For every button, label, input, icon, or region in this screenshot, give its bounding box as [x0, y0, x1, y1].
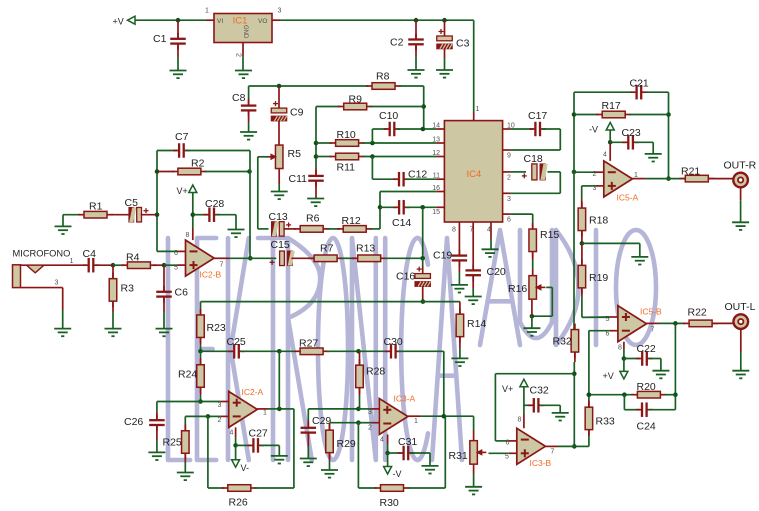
wire: [184, 462, 186, 473]
wire: [589, 330, 610, 332]
wire: [436, 142, 444, 144]
op-amp IC5-A: [593, 161, 639, 203]
resistor R25: [163, 425, 190, 460]
wire: [308, 408, 358, 410]
svg-text:IC1: IC1: [233, 16, 248, 27]
svg-text:R7: R7: [320, 243, 334, 255]
junction: [442, 414, 447, 419]
svg-text:6: 6: [507, 217, 511, 224]
wire: [95, 264, 113, 266]
power flag V- IC2-A: [232, 460, 249, 473]
svg-text:1: 1: [70, 258, 74, 265]
wire: [596, 185, 604, 187]
svg-text:2: 2: [218, 417, 222, 424]
junction: [421, 104, 426, 109]
wire: [503, 171, 511, 173]
capacitor C22: [636, 343, 656, 366]
svg-text:11: 11: [433, 173, 440, 180]
ground: [271, 192, 288, 200]
wire: [214, 257, 229, 259]
svg-text:R27: R27: [299, 338, 318, 350]
wire: [236, 444, 252, 446]
wire: [740, 352, 742, 371]
capacitor C4: [83, 248, 100, 272]
capacitor C24: [636, 402, 656, 432]
svg-text:IC3-A: IC3-A: [394, 394, 416, 404]
wire: [610, 330, 618, 332]
svg-text:C23: C23: [622, 127, 641, 139]
wire: [329, 423, 331, 431]
capacitor C27: [247, 428, 268, 453]
wire: [545, 445, 558, 447]
capacitor C14: [392, 200, 411, 229]
wire: [551, 287, 553, 316]
wire: [257, 157, 259, 229]
capacitor C1: [153, 33, 186, 50]
svg-text:4: 4: [230, 430, 234, 437]
wire: [668, 92, 670, 178]
wire: [647, 322, 660, 324]
wire: [406, 178, 437, 180]
resistor R30: [375, 485, 410, 509]
regulator IC1: [205, 8, 282, 58]
wire: [495, 373, 574, 375]
svg-text:IC5-B: IC5-B: [640, 307, 662, 317]
wire: [531, 316, 533, 328]
junction: [572, 112, 577, 117]
wire: [588, 429, 590, 434]
wire: [623, 349, 625, 359]
capacitor C12: [393, 169, 427, 187]
svg-text:GND: GND: [242, 25, 248, 39]
svg-text:C4: C4: [83, 248, 97, 260]
junction: [572, 371, 577, 376]
ground: [465, 297, 482, 305]
svg-text:C16: C16: [396, 271, 415, 283]
svg-text:R10: R10: [337, 129, 356, 141]
wire: [242, 43, 244, 57]
wire: [156, 151, 158, 252]
wire: [490, 222, 492, 239]
wire: [581, 186, 583, 200]
junction: [176, 18, 181, 23]
wire: [582, 185, 596, 187]
svg-text:8: 8: [452, 227, 456, 234]
junction: [162, 263, 167, 268]
wire: [201, 301, 423, 303]
wire: [406, 206, 437, 208]
wire: [329, 452, 331, 460]
resistor R23: [197, 309, 226, 344]
wire: [178, 264, 186, 266]
svg-text:C3: C3: [456, 38, 470, 50]
junction: [530, 314, 535, 319]
trimmer R16: [508, 276, 545, 300]
junction: [580, 241, 585, 246]
wire: [192, 228, 194, 240]
IC U IC4: [432, 121, 515, 234]
svg-text:C17: C17: [528, 110, 547, 122]
capacitor C10: [379, 110, 400, 136]
wire: [646, 91, 669, 93]
wire: [415, 44, 417, 56]
wire: [573, 92, 575, 329]
connector OUT-L: [725, 301, 756, 329]
svg-text:R20: R20: [637, 381, 656, 393]
wire: [258, 228, 269, 230]
wire: [659, 322, 685, 324]
junction: [587, 393, 592, 398]
wire: [330, 422, 359, 424]
capacitor C17: [528, 110, 547, 136]
svg-text:R8: R8: [376, 71, 390, 83]
svg-text:C10: C10: [379, 110, 398, 122]
wire: [546, 286, 552, 288]
junction: [247, 169, 252, 174]
wire: [582, 242, 640, 244]
wire: [157, 171, 174, 173]
wire: [156, 440, 158, 452]
junction: [622, 392, 627, 397]
wire: [423, 86, 425, 129]
ground: [156, 329, 173, 337]
power flag -V: [589, 123, 614, 135]
wire: [444, 20, 446, 36]
junction: [248, 256, 253, 261]
wire: [208, 487, 224, 489]
wire: [581, 231, 583, 243]
svg-text:R23: R23: [207, 322, 226, 334]
svg-text:C2: C2: [390, 37, 404, 49]
wire: [398, 350, 444, 352]
resistor R21: [679, 166, 714, 182]
wire: [329, 460, 331, 470]
wire: [399, 85, 424, 87]
svg-text:R31: R31: [449, 450, 468, 462]
svg-text:7: 7: [220, 262, 224, 269]
capacitor C15: [270, 239, 295, 266]
svg-text:C7: C7: [175, 131, 189, 143]
resistor R12: [337, 215, 372, 232]
wire: [156, 412, 158, 420]
svg-text:R29: R29: [337, 438, 356, 450]
wire: [63, 214, 80, 216]
resistor R19: [578, 259, 608, 294]
junction: [378, 205, 383, 210]
capacitor C20: [465, 264, 505, 281]
wire: [573, 362, 575, 446]
svg-text:1: 1: [263, 410, 267, 417]
junction: [572, 170, 577, 175]
junction: [198, 399, 203, 404]
wire: [473, 430, 475, 440]
junction: [673, 392, 678, 397]
resistor R7: [308, 243, 343, 262]
wire: [581, 289, 583, 297]
wire: [635, 141, 653, 143]
wire: [473, 465, 475, 474]
wire: [458, 222, 460, 255]
wire: [279, 350, 296, 352]
junction: [666, 176, 671, 181]
wire: [624, 358, 640, 360]
wire: [387, 435, 389, 445]
svg-text:V+: V+: [502, 384, 513, 394]
resistor R11: [330, 153, 365, 173]
svg-text:14: 14: [432, 123, 440, 130]
trimmer R31: [449, 441, 487, 465]
ground: [631, 257, 648, 265]
resistor R10: [330, 129, 365, 146]
wire: [574, 445, 589, 447]
svg-text:R24: R24: [178, 369, 197, 381]
wire: [532, 270, 534, 276]
svg-text:6: 6: [506, 440, 510, 447]
wire: [205, 171, 250, 173]
wire: [315, 181, 317, 199]
svg-text:R18: R18: [589, 215, 608, 227]
ground: [482, 249, 499, 257]
ground: [300, 459, 317, 467]
wire: [62, 310, 64, 329]
op-amp IC2-A: [218, 387, 268, 437]
power flag +V: [113, 16, 136, 26]
wire: [581, 200, 583, 208]
svg-text:C20: C20: [487, 266, 506, 278]
svg-text:OUT-L: OUT-L: [725, 301, 756, 313]
wire: [429, 453, 431, 466]
wire: [200, 345, 202, 351]
resistor R26: [222, 485, 257, 509]
wire: [632, 178, 645, 180]
wire: [136, 19, 207, 21]
wire: [307, 446, 309, 459]
capacitor C21: [630, 78, 649, 100]
wire: [235, 427, 237, 437]
wire: [163, 298, 165, 312]
wire: [156, 426, 158, 441]
wire: [674, 323, 676, 409]
wire: [66, 264, 87, 266]
ground: [148, 452, 165, 460]
wire: [649, 409, 676, 411]
svg-text:+V: +V: [113, 17, 124, 27]
svg-text:1: 1: [205, 8, 209, 15]
wire: [503, 213, 511, 215]
resistor R6: [294, 213, 329, 233]
junction: [111, 263, 116, 268]
svg-text:16: 16: [432, 185, 440, 192]
wire: [248, 86, 250, 98]
wire: [664, 394, 675, 396]
svg-text:C25: C25: [227, 336, 246, 348]
svg-text:R6: R6: [306, 213, 320, 225]
wire: [221, 415, 229, 417]
wire: [363, 142, 437, 144]
svg-text:C24: C24: [637, 421, 656, 433]
wire: [503, 128, 511, 130]
wire: [588, 434, 590, 446]
wire: [443, 351, 445, 416]
wire: [316, 142, 332, 144]
wire: [623, 342, 625, 349]
wire: [112, 265, 114, 279]
resistor R15: [529, 223, 559, 257]
wire: [359, 350, 389, 352]
wire: [208, 415, 221, 417]
wire: [370, 228, 380, 230]
capacitor C5: [125, 197, 149, 222]
junction: [622, 356, 627, 361]
resistor R14: [456, 308, 486, 343]
ground: [307, 199, 324, 207]
svg-text:IC3-B: IC3-B: [530, 458, 552, 468]
wire: [201, 401, 221, 403]
wire: [200, 309, 202, 315]
svg-text:VI: VI: [217, 18, 223, 25]
power flag -V IC3-A: [384, 467, 402, 480]
wire: [307, 409, 309, 420]
wire: [490, 239, 492, 249]
wire: [541, 404, 561, 406]
wire: [242, 56, 244, 71]
ground: [321, 470, 338, 478]
wire: [200, 387, 202, 395]
wire: [588, 331, 590, 401]
svg-text:C27: C27: [249, 428, 268, 440]
wire: [472, 275, 474, 288]
capacitor C8: [232, 92, 256, 116]
wire: [358, 487, 376, 489]
wire: [260, 444, 279, 446]
junction: [356, 420, 361, 425]
svg-text:3: 3: [507, 196, 511, 203]
op-amp IC2-B: [174, 232, 224, 280]
wire: [574, 114, 598, 116]
wire: [740, 200, 742, 222]
svg-text:7: 7: [551, 449, 555, 456]
svg-text:15: 15: [432, 209, 440, 216]
power flag V+: [177, 185, 197, 196]
wire: [216, 214, 236, 216]
wire: [511, 149, 561, 151]
wire: [511, 213, 533, 215]
capacitor C23: [622, 127, 641, 150]
wire: [200, 395, 202, 402]
wire: [112, 312, 114, 329]
svg-text:C18: C18: [524, 153, 543, 165]
wire: [581, 243, 583, 264]
svg-text:8: 8: [518, 417, 522, 424]
wire: [610, 316, 618, 318]
svg-text:R11: R11: [337, 162, 356, 174]
wire: [293, 409, 295, 488]
ground: [436, 70, 453, 78]
wire: [473, 416, 475, 430]
wire: [141, 214, 157, 216]
ground: [451, 285, 468, 293]
svg-text:2: 2: [235, 53, 242, 57]
wire: [531, 299, 533, 316]
svg-text:R33: R33: [596, 416, 615, 428]
svg-text:3: 3: [55, 280, 59, 287]
svg-text:R28: R28: [366, 366, 385, 378]
wire: [524, 404, 532, 406]
svg-text:R17: R17: [602, 100, 621, 112]
junction: [277, 407, 282, 412]
svg-text:-V: -V: [393, 469, 402, 479]
wire: [235, 437, 237, 445]
wire: [307, 420, 309, 427]
ground: [54, 329, 71, 337]
resistor R27: [294, 338, 329, 355]
wire: [257, 408, 268, 410]
wire: [200, 302, 202, 309]
wire: [280, 19, 474, 21]
resistor R13: [352, 243, 387, 262]
wire: [532, 225, 534, 229]
wire: [156, 402, 158, 413]
wire: [372, 178, 397, 180]
wire: [459, 348, 461, 358]
wire: [268, 408, 279, 410]
wire: [629, 114, 668, 116]
resistor R9: [338, 94, 373, 110]
wire: [436, 178, 444, 180]
junction: [572, 444, 577, 449]
wire: [371, 157, 373, 180]
ground: [55, 226, 72, 234]
wire: [248, 110, 250, 122]
wire: [574, 352, 576, 362]
wire: [559, 129, 561, 150]
wire: [436, 191, 444, 193]
trimmer R5: [266, 145, 301, 169]
power flag V+ IC3-B: [502, 379, 528, 394]
wire: [358, 422, 371, 424]
wire: [192, 193, 194, 228]
wire: [436, 128, 444, 130]
wire: [415, 20, 417, 39]
junction: [314, 141, 319, 146]
wire: [62, 215, 64, 227]
wire: [708, 178, 733, 180]
wire: [193, 214, 208, 216]
wire: [472, 288, 474, 297]
wire: [623, 395, 625, 410]
junction: [155, 169, 160, 174]
resistor R1: [78, 201, 113, 219]
svg-text:13: 13: [432, 137, 440, 144]
wire: [307, 433, 309, 446]
wire: [235, 215, 237, 230]
svg-text:R4: R4: [126, 251, 140, 263]
wire: [589, 394, 634, 396]
wire: [532, 214, 534, 225]
wire: [387, 444, 389, 453]
wire: [206, 19, 214, 21]
svg-text:R9: R9: [349, 94, 363, 106]
capacitor C7: [173, 131, 190, 158]
wire: [473, 20, 475, 112]
wire: [200, 337, 202, 345]
wire: [163, 265, 165, 291]
wire: [341, 257, 354, 259]
capacitor C6: [156, 286, 188, 303]
svg-text:R26: R26: [229, 497, 248, 509]
wire: [623, 359, 625, 372]
wire: [445, 415, 474, 417]
